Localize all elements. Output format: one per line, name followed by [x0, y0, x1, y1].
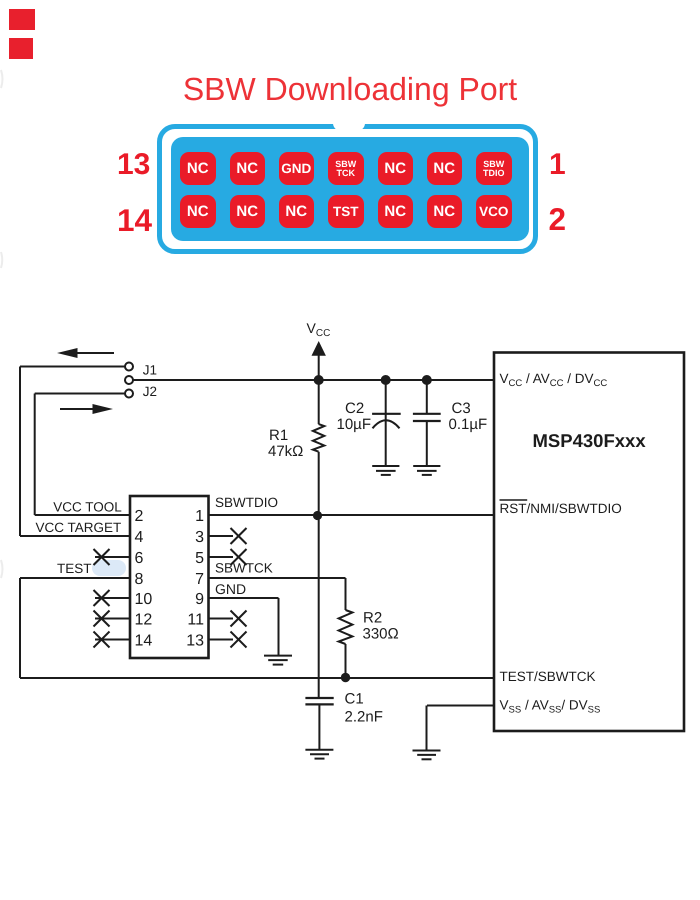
no-connect X pin 11: [231, 611, 247, 627]
svg-text:MSP430Fxxx: MSP430Fxxx: [533, 430, 647, 451]
no-connect X pin 3: [231, 528, 247, 544]
RST overline: [500, 499, 528, 501]
svg-text:C1: C1: [345, 690, 364, 707]
wire pin6 stub: [95, 556, 130, 558]
ground C3: [413, 466, 440, 475]
svg-text:6: 6: [135, 550, 144, 567]
pin 4 NC: [427, 195, 463, 228]
svg-text:47kΩ: 47kΩ: [268, 443, 303, 460]
wire pin12 stub: [95, 618, 130, 620]
svg-text:TEST: TEST: [57, 561, 92, 576]
no-connect X pin 13: [231, 632, 247, 648]
svg-text:10: 10: [135, 591, 153, 608]
wire SBWTDIO node to C1: [318, 516, 320, 697]
svg-text:GND: GND: [215, 581, 246, 597]
wire C3 top: [426, 380, 428, 414]
hidden marker red square top 1: [9, 9, 35, 30]
connector outer border: [157, 124, 538, 254]
title SBW Downloading Port: [0, 72, 700, 107]
svg-text:9: 9: [195, 591, 204, 608]
capacitor C1: [305, 697, 333, 699]
wire Vcc stub: [318, 353, 320, 380]
wire Vss ground vertical: [426, 706, 428, 751]
wire C2 bottom: [385, 421, 387, 466]
wire pin9 GND: [209, 597, 279, 599]
svg-text:10µF: 10µF: [337, 416, 372, 433]
pin 7 SBWTCK: [328, 152, 364, 185]
pin 6 NC: [378, 195, 414, 228]
pin 10 NC: [279, 195, 315, 228]
wire Vcc rail: [134, 379, 495, 381]
svg-text:VCC TARGET: VCC TARGET: [36, 520, 122, 535]
direction arrow left: [70, 352, 114, 354]
label 2: [549, 204, 567, 236]
edge artifact top left: [1, 70, 3, 88]
svg-text:SBWTCK: SBWTCK: [215, 561, 273, 576]
jumper pin J2: [125, 390, 133, 398]
wire Vss pin: [427, 705, 494, 707]
svg-text:14: 14: [135, 632, 153, 649]
capacitor C2: [372, 413, 401, 415]
no-connect X pin 10: [94, 590, 110, 606]
pin 11 NC: [230, 152, 266, 185]
no-connect X pin 12: [94, 611, 110, 627]
wire pin4 VCC TARGET: [20, 535, 130, 537]
header connector box: [130, 496, 209, 658]
wire pin9 GND vertical: [278, 598, 280, 656]
Vcc arrow: [312, 341, 326, 356]
pin 14 NC: [180, 195, 216, 228]
wire pin13 stub: [209, 639, 233, 641]
pin 5 NC: [378, 152, 414, 185]
pin 12 NC: [230, 195, 266, 228]
pin 9 GND: [279, 152, 315, 185]
wire pin8 TEST: [20, 577, 130, 579]
junction node C3: [422, 375, 432, 385]
wire pin3 stub: [209, 535, 233, 537]
pin 8 TST: [328, 195, 364, 228]
resistor R2: [339, 610, 353, 644]
svg-text:R2: R2: [363, 609, 382, 626]
wire pin2 VCC TOOL: [35, 514, 130, 516]
no-connect X pin 6: [94, 549, 110, 565]
svg-text:8: 8: [135, 571, 144, 588]
direction arrow right: [60, 408, 100, 410]
connector key notch: [333, 119, 365, 131]
svg-text:R1: R1: [269, 427, 288, 444]
label 13: [117, 150, 150, 180]
svg-text:J1: J1: [143, 363, 157, 378]
wire J1 vertical: [19, 367, 21, 537]
svg-text:SBWTDIO: SBWTDIO: [215, 495, 278, 510]
pin 13 NC: [180, 152, 216, 185]
wire R2 top: [345, 578, 347, 610]
svg-text:0.1µF: 0.1µF: [449, 416, 488, 433]
connector body: [171, 137, 529, 241]
wire R1 top: [318, 380, 320, 424]
ground C1: [305, 750, 333, 759]
svg-text:11: 11: [187, 611, 204, 628]
svg-text:C3: C3: [452, 400, 471, 417]
label 1: [549, 150, 566, 180]
wire R1 bottom to SBWTDIO node: [318, 452, 320, 516]
edge artifact upper left: [1, 252, 2, 268]
svg-text:VCC TOOL: VCC TOOL: [53, 499, 122, 514]
svg-text:VSS / AVSS/ DVSS: VSS / AVSS/ DVSS: [500, 698, 601, 716]
wire J1 horizontal: [20, 366, 125, 368]
jumper pin middle: [125, 376, 133, 384]
pin 1 SBWTDIO: [476, 152, 512, 185]
svg-text:3: 3: [195, 529, 204, 546]
junction node R2/C1: [341, 673, 350, 682]
label 14: [117, 205, 152, 237]
svg-text:5: 5: [195, 550, 204, 567]
svg-text:12: 12: [135, 611, 153, 628]
wire J2 vertical: [34, 394, 36, 516]
svg-text:C2: C2: [345, 400, 364, 417]
svg-text:VCC / AVCC / DVCC: VCC / AVCC / DVCC: [500, 371, 608, 389]
wire pin7 SBWTCK: [209, 577, 346, 579]
junction node C2: [381, 375, 391, 385]
hidden marker red square top 2: [9, 38, 33, 59]
junction node Vcc/R1: [314, 375, 324, 385]
wire bottom TEST/SBWTCK line: [20, 677, 494, 679]
MSP430 IC box: [494, 353, 684, 732]
wire J2 horizontal: [35, 393, 125, 395]
wire R2 bottom: [345, 644, 347, 678]
capacitor C3: [413, 413, 441, 415]
junction node SBWTDIO: [313, 511, 322, 520]
ground Vss: [413, 751, 441, 760]
svg-text:2.2nF: 2.2nF: [345, 708, 383, 725]
resistor R1: [313, 424, 324, 452]
jumper pin J1: [125, 363, 133, 371]
svg-text:4: 4: [135, 529, 144, 546]
svg-text:330Ω: 330Ω: [363, 626, 399, 643]
wire pin10 stub: [95, 597, 130, 599]
wire C3 bottom: [426, 421, 428, 466]
no-connect X pin 14: [94, 632, 110, 648]
ground C2: [372, 466, 399, 475]
wire pin14 stub: [95, 639, 130, 641]
highlight smudge near TEST: [92, 560, 126, 576]
wire pin5 stub: [209, 556, 233, 558]
wire TEST vertical: [19, 578, 21, 678]
svg-text:2: 2: [135, 508, 144, 525]
pin 3 NC: [427, 152, 463, 185]
svg-text:VCC: VCC: [307, 320, 331, 339]
svg-text:1: 1: [195, 508, 204, 525]
svg-text:TEST/SBWTCK: TEST/SBWTCK: [500, 669, 596, 684]
wire pin1 SBWTDIO line: [209, 514, 494, 516]
svg-text:7: 7: [195, 571, 204, 588]
wire C1 bottom: [318, 705, 320, 749]
svg-text:13: 13: [186, 632, 204, 649]
ground pin9: [264, 656, 292, 665]
edge artifact mid left: [1, 560, 3, 578]
svg-text:J2: J2: [143, 384, 157, 399]
no-connect X pin 5: [231, 549, 247, 565]
wire pin11 stub: [209, 618, 233, 620]
svg-text:RST/NMI/SBWTDIO: RST/NMI/SBWTDIO: [500, 501, 622, 516]
pin 2 VCO: [476, 195, 512, 228]
wire C2 top: [385, 380, 387, 420]
